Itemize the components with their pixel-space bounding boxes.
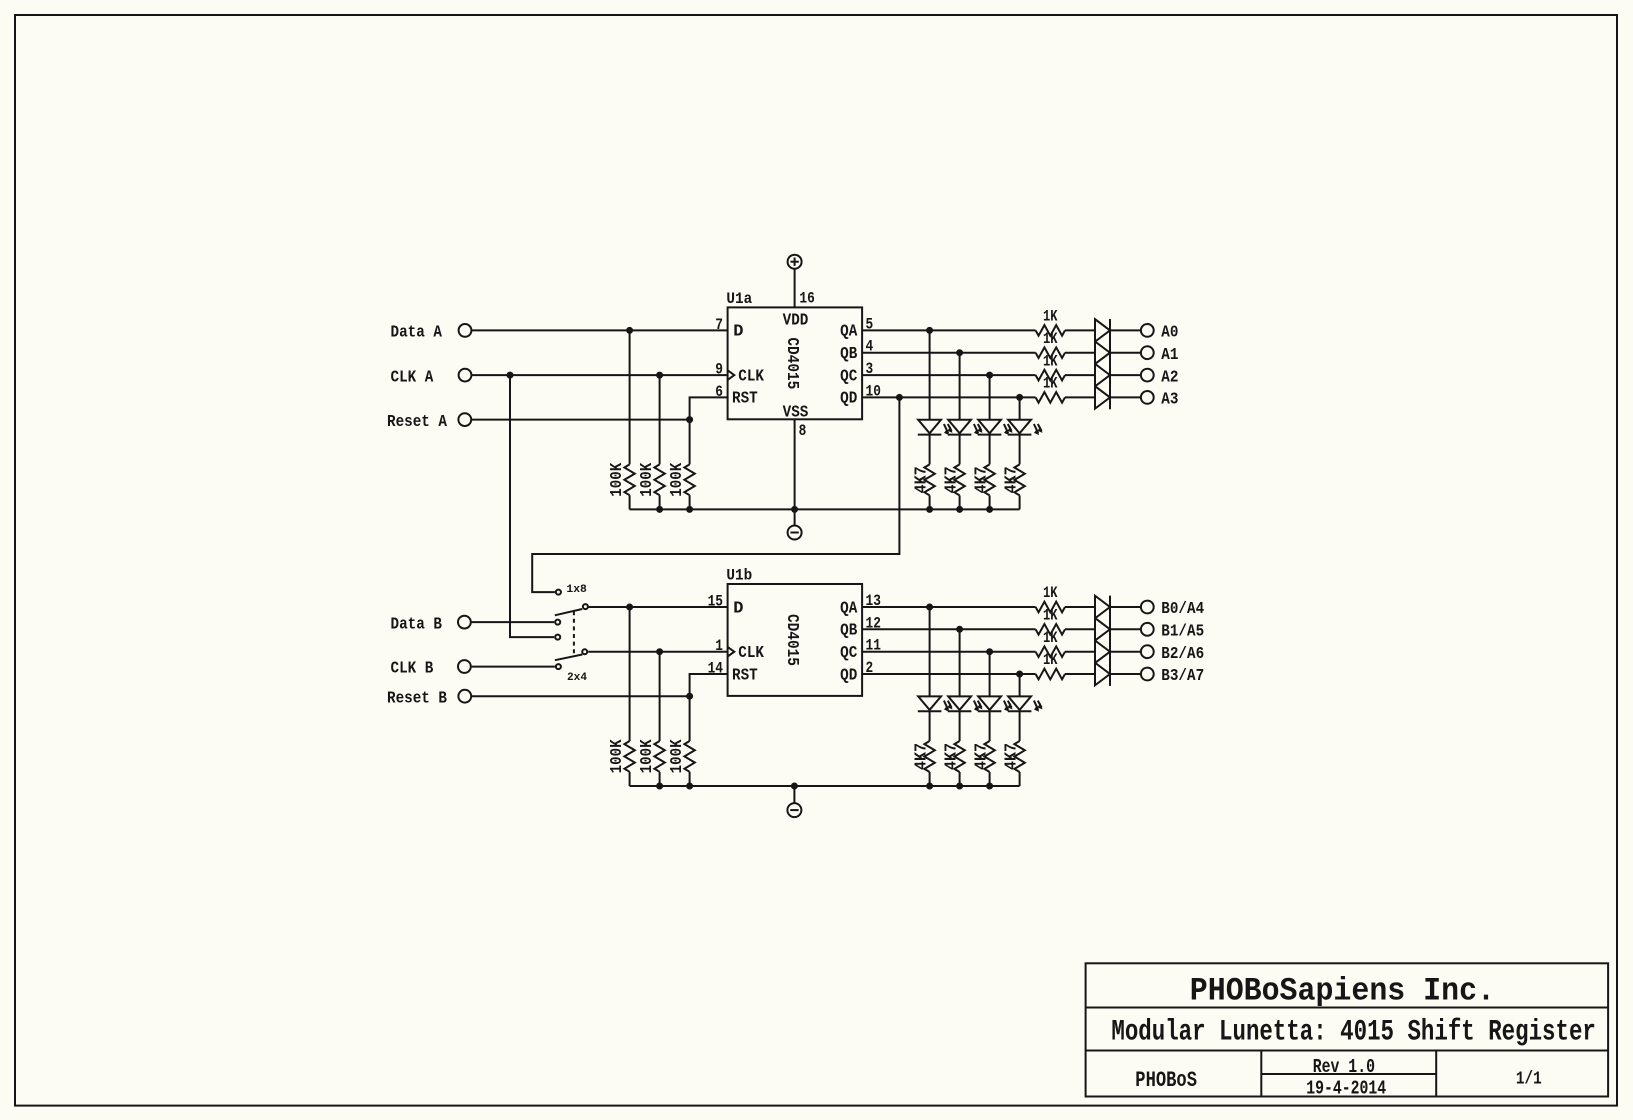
svg-text:100K: 100K — [608, 739, 627, 774]
jack B0/A4 — [1141, 601, 1154, 614]
wire 4K7 to ground rail — [929, 495, 931, 509]
wire Data B to switch throw — [472, 621, 555, 623]
svg-text:A2: A2 — [1161, 368, 1178, 387]
buffer diode (A1) — [1095, 341, 1110, 364]
svg-text:1K: 1K — [1043, 352, 1058, 370]
svg-text:1/1: 1/1 — [1516, 1069, 1542, 1090]
svg-text:1K: 1K — [1043, 607, 1058, 625]
svg-text:100K: 100K — [668, 462, 687, 497]
clock input wedge — [728, 647, 735, 657]
wire QA output row — [862, 606, 1036, 608]
LED indicator (B2/A6) — [978, 696, 1013, 711]
switch pole upper (to D) — [583, 604, 588, 609]
wire LED column — [1019, 397, 1021, 419]
svg-text:PHOBoS: PHOBoS — [1135, 1068, 1197, 1093]
title block divider 2 — [1086, 1050, 1609, 1052]
svg-text:1x8: 1x8 — [566, 584, 587, 596]
svg-text:2x4: 2x4 — [567, 672, 587, 684]
svg-text:RST: RST — [732, 390, 758, 409]
power symbol + (VDD supply) — [788, 255, 802, 269]
clock input wedge — [728, 370, 735, 380]
svg-text:Modular Lunetta: 4015 Shift Re: Modular Lunetta: 4015 Shift Register — [1111, 1016, 1596, 1050]
svg-text:4K7: 4K7 — [942, 743, 961, 770]
buffer diode (A2) — [1095, 364, 1110, 387]
junction 100K A2 / ground rail — [656, 506, 663, 513]
wire LED cathode to resistor — [989, 435, 991, 465]
svg-text:1K: 1K — [1043, 584, 1058, 602]
svg-text:B3/A7: B3/A7 — [1161, 667, 1204, 686]
switch throw 1x8 terminal — [556, 590, 561, 595]
wire 100K pulldown column A3 — [689, 420, 691, 465]
svg-text:CLK: CLK — [738, 644, 764, 663]
svg-text:1K: 1K — [1043, 308, 1058, 326]
wire 1K to buffer — [1065, 396, 1095, 398]
resistor 100K (B3) — [684, 741, 694, 772]
wire QD output row — [862, 673, 1036, 675]
switch throw Data B terminal — [555, 620, 560, 625]
resistor 100K (A2) — [654, 464, 664, 495]
svg-text:4: 4 — [866, 338, 874, 356]
buffer diode (B2/A6) — [1095, 640, 1110, 663]
buffer diode (B3/A7) — [1095, 663, 1110, 686]
wire LED cathode to resistor — [929, 711, 931, 741]
wire buffer to jack — [1110, 374, 1140, 376]
svg-text:100K: 100K — [638, 739, 657, 774]
wire VSS pin 8 to ground rail — [794, 419, 796, 509]
title block vertical divider left — [1260, 1051, 1262, 1097]
wire LED column — [989, 652, 991, 697]
junction LED tap — [1016, 394, 1023, 401]
svg-text:4K7: 4K7 — [912, 743, 931, 770]
svg-text:3: 3 — [866, 360, 874, 378]
svg-text:Data B: Data B — [391, 615, 442, 634]
resistor 100K (A3) — [684, 464, 694, 495]
wire buffer to jack — [1110, 651, 1140, 653]
wire resistor to ground rail — [629, 772, 631, 786]
shift register U1b CD4015 body — [728, 584, 863, 696]
wire 4K7 to ground rail — [959, 772, 961, 786]
wire VDD pin 16 — [794, 269, 796, 308]
wire 1K to buffer — [1065, 673, 1095, 675]
resistor 4K7 — [1014, 741, 1024, 772]
resistor 1K — [1036, 669, 1065, 680]
wire 1K to buffer — [1065, 628, 1095, 630]
wire 4K7 to ground rail — [989, 772, 991, 786]
LED indicator (B0/A4) — [918, 696, 953, 711]
LED indicator (A1) — [948, 420, 983, 435]
svg-text:VDD: VDD — [783, 311, 809, 330]
wire buffer to jack — [1110, 628, 1140, 630]
junction 100K B3 / ground rail — [686, 783, 693, 790]
wire resistor to ground rail — [689, 772, 691, 786]
wire 4K7 to ground rail — [1019, 772, 1021, 786]
svg-text:B2/A6: B2/A6 — [1161, 645, 1204, 664]
wire stub to - symbol — [794, 509, 796, 525]
svg-text:100K: 100K — [638, 462, 657, 497]
resistor 4K7 — [984, 464, 994, 495]
wire 100K pulldown column B2 — [659, 652, 661, 741]
svg-text:A3: A3 — [1161, 391, 1178, 410]
junction CLK line / 100K pulldown — [656, 648, 663, 655]
svg-text:4K7: 4K7 — [942, 466, 961, 493]
resistor 100K (B2) — [654, 741, 664, 772]
LED indicator (B1/A5) — [948, 696, 983, 711]
wire buffer to jack — [1110, 352, 1140, 354]
wire buffer to jack — [1110, 396, 1140, 398]
svg-text:Rev 1.0: Rev 1.0 — [1313, 1056, 1375, 1078]
junction LED tap — [986, 372, 993, 379]
junction Reset B / RST pin / 100K pulldown — [686, 693, 693, 700]
wire LED cathode to resistor — [1019, 711, 1021, 741]
junction LED tap — [986, 648, 993, 655]
jack A2 — [1141, 369, 1154, 382]
jack A1 — [1141, 346, 1154, 359]
jack B3/A7 — [1141, 668, 1154, 681]
svg-text:D: D — [733, 599, 743, 618]
junction Data A / 100K pulldown — [626, 327, 633, 334]
svg-text:CLK B: CLK B — [391, 660, 434, 679]
resistor 1K — [1036, 624, 1065, 635]
ground rail section A — [630, 508, 1020, 510]
svg-text:B1/A5: B1/A5 — [1161, 623, 1204, 642]
wire resistor to ground rail — [629, 495, 631, 509]
wire LED cathode to resistor — [929, 435, 931, 465]
power symbol - (VSS supply, section B) — [787, 803, 801, 817]
svg-text:QC: QC — [840, 367, 857, 386]
resistor 4K7 — [924, 741, 934, 772]
buffer cathode bar section B — [1109, 596, 1111, 686]
LED indicator (A0) — [918, 420, 953, 435]
svg-text:CLK A: CLK A — [391, 368, 435, 387]
svg-text:U1b: U1b — [726, 567, 752, 585]
wire Reset A — [472, 419, 690, 421]
svg-text:1K: 1K — [1043, 375, 1058, 393]
wire 4K7 to ground rail — [989, 495, 991, 509]
junction Reset A / RST pin / 100K pulldown — [686, 416, 693, 423]
shift register U1a CD4015 body — [728, 307, 863, 419]
buffer diode (B1/A5) — [1095, 618, 1110, 641]
wire LED column — [989, 375, 991, 420]
junction CLK A / 100K pulldown — [656, 372, 663, 379]
svg-text:4K7: 4K7 — [1002, 466, 1021, 493]
svg-text:4K7: 4K7 — [1002, 743, 1021, 770]
svg-text:A0: A0 — [1161, 324, 1178, 343]
svg-text:15: 15 — [708, 593, 723, 611]
wire LED cathode to resistor — [959, 435, 961, 465]
jack CLK B — [458, 660, 471, 673]
buffer diode (A0) — [1095, 319, 1110, 342]
wire resistor to ground rail — [659, 772, 661, 786]
svg-text:100K: 100K — [668, 739, 687, 774]
svg-text:14: 14 — [708, 660, 724, 678]
jack B2/A6 — [1141, 645, 1154, 658]
svg-text:2: 2 — [866, 659, 874, 677]
resistor 1K — [1036, 646, 1065, 657]
wire LED column — [1019, 674, 1021, 696]
svg-text:QB: QB — [840, 622, 857, 641]
svg-text:RST: RST — [732, 666, 758, 685]
wire LED cathode to resistor — [959, 711, 961, 741]
junction 100K A3 / ground rail — [686, 506, 693, 513]
title block frame — [1086, 963, 1609, 1096]
svg-text:13: 13 — [866, 592, 881, 610]
svg-text:1: 1 — [715, 637, 723, 655]
wire buffer to jack — [1110, 606, 1140, 608]
svg-text:1K: 1K — [1043, 629, 1058, 647]
title block rev/date divider — [1261, 1073, 1436, 1075]
junction 4K7 / ground rail — [956, 783, 963, 790]
wire QA output row — [862, 329, 1036, 331]
resistor 1K — [1036, 370, 1065, 381]
resistor 100K (B1) — [624, 741, 634, 772]
junction LED tap — [956, 349, 963, 356]
wire Data A to pin D — [472, 329, 728, 331]
svg-text:CLK: CLK — [738, 367, 764, 386]
ground rail section B — [630, 785, 1020, 787]
svg-text:9: 9 — [715, 361, 723, 379]
junction LED tap — [926, 604, 933, 611]
jack Data A — [459, 324, 472, 337]
svg-text:D: D — [733, 323, 743, 342]
wire LED cathode to resistor — [1019, 435, 1021, 465]
svg-text:16: 16 — [799, 289, 814, 307]
svg-text:100K: 100K — [608, 462, 627, 497]
wire QC output row — [862, 651, 1036, 653]
svg-text:A1: A1 — [1161, 346, 1178, 365]
svg-text:6: 6 — [715, 383, 723, 401]
wire 1K to buffer — [1065, 606, 1095, 608]
junction 4K7 / ground rail — [956, 506, 963, 513]
wire resistor to ground rail — [689, 495, 691, 509]
jack Data B — [458, 616, 471, 629]
LED indicator (B3/A7) — [1008, 696, 1043, 711]
switch lever lower — [555, 655, 582, 661]
svg-text:QD: QD — [840, 390, 857, 409]
wire 1K to buffer — [1065, 329, 1095, 331]
resistor 4K7 — [954, 741, 964, 772]
wire LED column — [929, 330, 931, 419]
buffer cathode bar section A — [1109, 319, 1111, 409]
buffer diode (B0/A4) — [1095, 596, 1110, 619]
switch pole lower (to CLK) — [582, 649, 587, 654]
svg-text:1K: 1K — [1043, 330, 1058, 348]
wire buffer to jack — [1110, 673, 1140, 675]
wire 1K to buffer — [1065, 374, 1095, 376]
resistor 100K (A1) — [624, 464, 634, 495]
svg-text:QA: QA — [840, 599, 858, 618]
jack Reset A — [458, 413, 471, 426]
wire LED column — [959, 353, 961, 420]
wire switch pole upper to pin D — [588, 606, 727, 608]
wire LED column — [959, 629, 961, 696]
svg-text:B0/A4: B0/A4 — [1161, 600, 1204, 619]
svg-text:QA: QA — [840, 323, 858, 342]
svg-text:1K: 1K — [1043, 651, 1058, 669]
svg-text:12: 12 — [866, 614, 881, 632]
svg-text:5: 5 — [866, 315, 874, 333]
wire 1K to buffer — [1065, 651, 1095, 653]
wire 4K7 to ground rail — [1019, 495, 1021, 509]
buffer diode (A3) — [1095, 386, 1110, 409]
wire CLK B to switch throw — [472, 666, 555, 668]
title block vertical divider right — [1435, 1051, 1437, 1097]
junction QD branch to switch — [896, 394, 903, 401]
wire RST pin 6 to Reset A line — [690, 397, 728, 419]
wire LED column — [929, 607, 931, 696]
wire Reset B — [472, 695, 690, 697]
wire switch pole lower to pin CLK — [588, 651, 727, 653]
svg-text:11: 11 — [866, 637, 881, 655]
wire 4K7 to ground rail — [959, 495, 961, 509]
switch gang link (dashed) — [573, 611, 575, 656]
switch lever upper — [555, 609, 582, 615]
wire QD output row — [862, 396, 1036, 398]
switch throw CLK B terminal — [556, 664, 561, 669]
svg-text:Reset A: Reset A — [387, 413, 448, 432]
junction D line / 100K pulldown — [626, 604, 633, 611]
junction LED tap — [1016, 671, 1023, 678]
resistor 4K7 — [984, 741, 994, 772]
jack CLK A — [459, 369, 472, 382]
svg-text:QC: QC — [840, 644, 857, 663]
resistor 4K7 — [924, 464, 934, 495]
wire CLK A to pin CLK — [472, 374, 728, 376]
junction 4K7 / ground rail — [926, 506, 933, 513]
jack B1/A5 — [1141, 623, 1154, 636]
wire LED cathode to resistor — [989, 711, 991, 741]
title block divider 1 — [1086, 1007, 1609, 1009]
junction LED tap — [926, 327, 933, 334]
junction VSS / ground rail — [791, 506, 798, 513]
resistor 4K7 — [954, 464, 964, 495]
svg-text:U1a: U1a — [726, 290, 752, 308]
wire 100K pulldown column A2 — [659, 375, 661, 464]
svg-text:4K7: 4K7 — [972, 466, 991, 493]
svg-text:4K7: 4K7 — [912, 466, 931, 493]
wire QD to switch 1x8 throw — [532, 397, 899, 592]
svg-text:10: 10 — [866, 382, 881, 400]
resistor 1K — [1036, 602, 1065, 613]
junction 4K7 / ground rail — [986, 506, 993, 513]
resistor 1K — [1036, 392, 1065, 403]
power symbol - (VSS supply, section A) — [788, 526, 802, 540]
resistor 1K — [1036, 347, 1065, 358]
svg-text:PHOBoSapiens Inc.: PHOBoSapiens Inc. — [1190, 973, 1495, 1010]
junction ground rail / - symbol stub — [791, 783, 798, 790]
wire 4K7 to ground rail — [929, 772, 931, 786]
jack A3 — [1141, 391, 1154, 404]
wire 1K to buffer — [1065, 352, 1095, 354]
junction CLK A branch to switch — [507, 372, 514, 379]
wire QB output row — [862, 628, 1036, 630]
svg-text:QB: QB — [840, 345, 857, 364]
resistor 1K — [1036, 325, 1065, 336]
svg-text:8: 8 — [799, 422, 807, 440]
wire buffer to jack — [1110, 329, 1140, 331]
wire 100K pulldown column A1 — [629, 330, 631, 464]
wire 100K pulldown column B3 — [689, 696, 691, 741]
junction 4K7 / ground rail — [986, 783, 993, 790]
jack Reset B — [458, 690, 471, 703]
svg-text:CD4015: CD4015 — [782, 337, 801, 389]
jack A0 — [1141, 324, 1154, 337]
junction LED tap — [956, 626, 963, 633]
wire stub to - symbol — [793, 786, 795, 803]
svg-text:Reset B: Reset B — [387, 689, 447, 708]
wire QC output row — [862, 374, 1036, 376]
junction 100K B2 / ground rail — [656, 783, 663, 790]
wire resistor to ground rail — [659, 495, 661, 509]
resistor 4K7 — [1014, 464, 1024, 495]
LED indicator (A3) — [1008, 420, 1043, 435]
wire RST pin 14 to Reset B line — [690, 674, 728, 696]
svg-text:19-4-2014: 19-4-2014 — [1306, 1078, 1386, 1100]
svg-text:Data A: Data A — [391, 324, 443, 343]
svg-text:7: 7 — [715, 316, 723, 334]
LED indicator (A2) — [978, 420, 1013, 435]
switch throw CLK A terminal — [555, 635, 560, 640]
svg-text:QD: QD — [840, 666, 857, 685]
svg-text:CD4015: CD4015 — [782, 614, 801, 666]
wire QB output row — [862, 352, 1036, 354]
svg-text:4K7: 4K7 — [972, 743, 991, 770]
wire 100K pulldown column B1 — [629, 607, 631, 741]
wire CLK A branch down to switch — [510, 375, 554, 637]
junction 4K7 / ground rail — [926, 783, 933, 790]
